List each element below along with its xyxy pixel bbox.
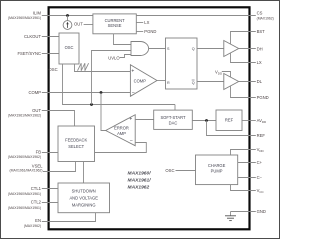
oscillator OSC block <box>59 33 79 64</box>
svg-text:(MAX1961/MAX1962): (MAX1961/MAX1962) <box>10 169 43 173</box>
svg-text:VDD: VDD <box>215 70 223 76</box>
wire REF to pin <box>207 121 256 136</box>
net VDD label driver <box>215 70 231 78</box>
svg-text:(MAX1960/MAX1961): (MAX1960/MAX1961) <box>8 206 41 210</box>
wire DH output <box>239 48 256 50</box>
wire feedback select output to error amp minus <box>95 143 147 153</box>
svg-text:REF: REF <box>257 133 266 138</box>
svg-text:OUT: OUT <box>32 108 41 113</box>
svg-text:C+: C+ <box>257 160 263 165</box>
svg-text:VDD: VDD <box>257 147 265 153</box>
wire AVDD to pin <box>242 120 256 122</box>
svg-text:CTL2: CTL2 <box>31 200 42 205</box>
wire FSET/SYNC to OSC <box>42 53 59 55</box>
pin FB label <box>8 150 41 159</box>
wire OUT to feedback select <box>42 111 75 127</box>
svg-text:OSC: OSC <box>165 168 174 173</box>
svg-text:AVDD: AVDD <box>257 118 267 124</box>
node PGND stub <box>136 29 156 34</box>
svg-text:LX: LX <box>257 60 262 65</box>
svg-text:DH: DH <box>257 46 263 51</box>
wire CS output to pin <box>136 15 256 17</box>
feedback select block <box>58 126 95 162</box>
svg-text:PGND: PGND <box>257 95 269 100</box>
wire PGND return <box>231 86 256 98</box>
low-side driver <box>224 74 239 90</box>
svg-text:−: − <box>132 90 135 96</box>
svg-text:(MAX1962): (MAX1962) <box>257 16 274 20</box>
svg-text:(MAX1960/MAX1961): (MAX1960/MAX1961) <box>8 192 41 196</box>
pin EN label <box>24 218 41 228</box>
svg-text:+: + <box>129 116 132 122</box>
svg-text:VCC: VCC <box>257 188 265 194</box>
node ILIM junction <box>66 14 69 17</box>
wire ramp output <box>75 64 131 72</box>
wire comparator output to latch R <box>157 80 166 82</box>
wire CLKOUT to OSC <box>42 36 59 38</box>
wire soft-start to error amp plus <box>135 119 154 121</box>
svg-text:COMP: COMP <box>134 78 147 83</box>
svg-text:SOFT-START: SOFT-START <box>160 115 186 120</box>
svg-text:−: − <box>130 138 133 144</box>
svg-text:(MAX1961/MAX1962): (MAX1961/MAX1962) <box>8 113 41 117</box>
AND gate <box>131 42 149 56</box>
wire CTL2 to shutdown <box>42 202 58 204</box>
svg-text:OUT: OUT <box>74 22 83 27</box>
svg-text:MAX1962: MAX1962 <box>128 184 150 190</box>
wire BST supply <box>231 32 256 45</box>
wire feedback select to shutdown <box>83 162 85 184</box>
svg-text:LX: LX <box>144 20 149 25</box>
svg-text:MAX1961/: MAX1961/ <box>128 177 152 183</box>
svg-text:SELECT: SELECT <box>68 144 84 149</box>
wire FB to feedback select <box>42 152 58 154</box>
net OSC label charge pump <box>165 168 195 173</box>
svg-text:+: + <box>131 69 134 75</box>
reference REF block <box>216 110 242 131</box>
part numbers <box>128 170 152 190</box>
pin OUT label <box>8 108 41 117</box>
svg-text:(MAX1962): (MAX1962) <box>24 224 41 228</box>
svg-text:(MAX1960/MAX1962): (MAX1960/MAX1962) <box>8 155 41 159</box>
wire current sense to AND gate <box>114 34 132 45</box>
svg-text:R: R <box>167 81 170 85</box>
wire COMP pin to comparator minus <box>42 92 131 94</box>
wire OSC clock to soft-start DAC <box>174 105 176 111</box>
soft-start DAC block <box>154 110 193 129</box>
wire Q to high-side driver <box>197 48 224 50</box>
svg-text:SENSE: SENSE <box>108 23 122 28</box>
current source I-LIM <box>63 16 72 30</box>
node COMP junction <box>100 91 103 94</box>
svg-text:DAC: DAC <box>169 120 178 125</box>
node LX stub <box>136 20 149 25</box>
pin CS label <box>257 11 274 21</box>
error amplifier <box>106 115 136 146</box>
wire C- to pin <box>238 177 256 179</box>
wire LX return <box>231 53 256 63</box>
pin CTL2 label <box>8 200 42 210</box>
svg-text:REF: REF <box>225 118 234 123</box>
svg-text:MARGINING: MARGINING <box>72 203 96 208</box>
PWM latch <box>166 38 198 89</box>
svg-text:BST: BST <box>257 29 266 34</box>
svg-text:DL: DL <box>257 79 263 84</box>
wire DL output <box>239 81 256 83</box>
node OSC clock junction <box>90 103 93 106</box>
svg-text:OSC: OSC <box>65 45 74 50</box>
svg-text:COMP: COMP <box>28 90 41 95</box>
pin ILIM label <box>8 10 41 20</box>
svg-text:C−: C− <box>257 175 263 180</box>
wire EN to shutdown <box>42 213 96 222</box>
svg-text:CLKOUT: CLKOUT <box>24 34 41 39</box>
svg-text:PUMP: PUMP <box>211 168 223 173</box>
svg-text:PGND: PGND <box>144 29 156 34</box>
svg-text:CS: CS <box>257 11 263 16</box>
svg-text:Q: Q <box>192 81 195 85</box>
wire UVLO to AND gate <box>120 55 131 58</box>
pin CTL1 label <box>8 186 42 196</box>
svg-text:GND: GND <box>257 209 266 214</box>
svg-text:FEEDBACK: FEEDBACK <box>65 138 87 143</box>
svg-text:MAX1960/: MAX1960/ <box>128 170 152 176</box>
wire VCC to pin <box>231 185 256 191</box>
svg-text:UVLO: UVLO <box>108 56 120 61</box>
pin VSEL label <box>10 164 44 173</box>
wire reference to soft-start DAC <box>192 120 216 122</box>
wire C+ to pin <box>238 162 256 164</box>
wire clock to AND gate <box>92 51 132 105</box>
svg-text:CTL1: CTL1 <box>31 186 42 191</box>
svg-text:(MAX1960/MAX1961): (MAX1960/MAX1961) <box>8 16 41 20</box>
svg-text:AND VOLTAGE: AND VOLTAGE <box>69 196 98 201</box>
wire AND to latch S <box>149 48 166 50</box>
wire error amp output up <box>101 93 106 131</box>
comparator COMP <box>130 65 157 97</box>
node REF junction <box>205 119 208 122</box>
charge pump block <box>196 155 238 185</box>
node OUT label <box>74 22 93 27</box>
svg-text:AMP: AMP <box>117 131 126 136</box>
wire GND to pin <box>231 211 256 213</box>
shutdown and voltage margining block <box>58 183 110 213</box>
wire Qbar to low-side driver <box>197 81 224 83</box>
svg-text:Q: Q <box>192 47 195 51</box>
wire ILIM to current sense <box>42 15 93 17</box>
high-side driver <box>224 41 239 57</box>
svg-text:OSC: OSC <box>49 67 58 72</box>
wire VSEL to feedback select <box>43 162 76 172</box>
sawtooth waveform symbol <box>78 63 89 70</box>
svg-text:FSET/SYNC: FSET/SYNC <box>18 51 42 56</box>
IC outline frame <box>49 7 250 229</box>
current sense block <box>93 14 136 34</box>
svg-text:SHUTDOWN: SHUTDOWN <box>72 189 96 194</box>
svg-text:ILIM: ILIM <box>33 10 42 15</box>
ground <box>225 212 236 221</box>
wire OSC net down and across <box>63 64 176 105</box>
wire CTL1 to shutdown <box>42 188 58 190</box>
svg-text:EN: EN <box>35 218 41 223</box>
wire VDD to pin <box>231 150 256 156</box>
